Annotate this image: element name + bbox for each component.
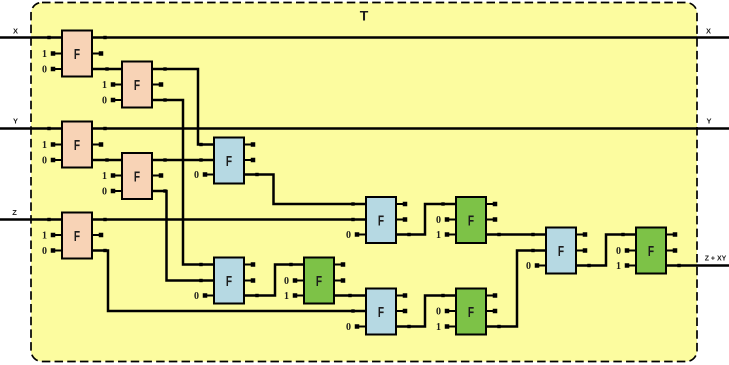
svg-text:1: 1: [42, 140, 47, 151]
mux F block U4: [102, 153, 163, 199]
svg-text:0: 0: [526, 261, 531, 272]
wire U11 out to U12b in: [396, 294, 456, 328]
svg-text:0: 0: [346, 322, 351, 333]
wire X input/output rail: [0, 36, 729, 39]
svg-text:F: F: [134, 169, 140, 186]
mux F block U10: [436, 197, 497, 243]
svg-text:Z + XY: Z + XY: [705, 255, 727, 262]
mux F block U5: [194, 138, 255, 184]
mux F block U12b: [436, 289, 497, 335]
svg-text:1: 1: [102, 171, 107, 182]
wire U1 out to U2 in: [92, 67, 122, 70]
svg-text:F: F: [558, 243, 564, 260]
wire U4 out to U8 mid in: [152, 189, 214, 282]
svg-text:F: F: [74, 46, 80, 63]
svg-text:0: 0: [436, 307, 441, 318]
svg-text:X: X: [13, 27, 18, 36]
wire U9 out to U10 in: [396, 202, 456, 236]
svg-text:1: 1: [616, 261, 621, 272]
svg-text:0: 0: [436, 215, 441, 226]
wire Y input/output rail: [0, 127, 729, 130]
svg-text:F: F: [648, 243, 654, 260]
svg-text:0: 0: [194, 291, 199, 302]
svg-text:Y: Y: [706, 117, 711, 126]
wire U2 bottom out to U8 top in: [152, 98, 214, 266]
svg-text:F: F: [74, 228, 80, 245]
wire U10 out to U13 top in: [486, 233, 546, 236]
wire output Z+XY rail from U14: [666, 264, 729, 267]
svg-text:0: 0: [42, 156, 47, 167]
svg-text:1: 1: [42, 49, 47, 60]
wire U6 out to U11 mid in: [92, 249, 366, 313]
svg-text:X: X: [706, 27, 711, 36]
wire U12b out to U13 mid in: [486, 249, 546, 328]
wire U5 out to U9 top in: [244, 173, 366, 206]
wire U8 out to U12 in: [244, 263, 304, 297]
svg-text:F: F: [226, 153, 232, 170]
mux F block U2: [102, 62, 163, 108]
svg-text:0: 0: [42, 246, 47, 257]
svg-text:1: 1: [284, 291, 289, 302]
svg-text:0: 0: [616, 246, 621, 257]
svg-text:1: 1: [436, 322, 441, 333]
svg-text:0: 0: [194, 170, 199, 181]
svg-text:0: 0: [346, 230, 351, 241]
svg-text:F: F: [468, 304, 474, 321]
mux F block U8: [194, 258, 255, 304]
svg-text:0: 0: [102, 96, 107, 107]
svg-text:T: T: [360, 7, 369, 23]
mux F block U11: [346, 289, 407, 335]
svg-text:F: F: [226, 273, 232, 290]
mux F block U6: [42, 213, 103, 259]
mux F block U3: [42, 122, 103, 168]
svg-text:0: 0: [102, 187, 107, 198]
wire U13 out to U14 in: [576, 233, 636, 267]
svg-text:F: F: [74, 137, 80, 154]
wire U3 out through U4 to U5 mid in: [92, 158, 214, 161]
mux F block U12: [284, 258, 345, 304]
svg-text:F: F: [468, 213, 474, 230]
wire U2 top out to U5 top in: [152, 67, 214, 146]
wire U12 out to U11 top in: [334, 294, 366, 297]
svg-text:0: 0: [284, 276, 289, 287]
mux F block U1: [42, 31, 103, 77]
svg-text:0: 0: [42, 65, 47, 76]
mux F block U14: [616, 228, 677, 274]
svg-text:F: F: [378, 213, 384, 230]
svg-text:F: F: [378, 304, 384, 321]
wire Z input rail to U7: [0, 218, 366, 221]
svg-text:F: F: [134, 77, 140, 94]
svg-text:1: 1: [102, 80, 107, 91]
svg-text:F: F: [316, 273, 322, 290]
mux F block U9: [346, 197, 407, 243]
svg-text:1: 1: [436, 230, 441, 241]
svg-text:Z: Z: [12, 208, 17, 217]
svg-text:Y: Y: [13, 117, 18, 126]
mux F block U13: [526, 228, 587, 274]
svg-text:1: 1: [42, 231, 47, 242]
